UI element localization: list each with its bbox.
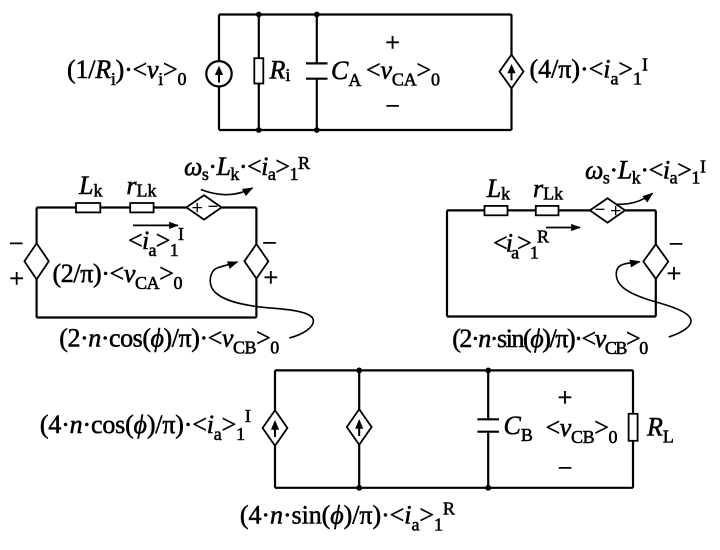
dependent source (2ncos/pi)&lt;vCB&gt;0 diamond (ml right): [244, 244, 268, 279]
node top diamond2: [356, 368, 362, 374]
resistor Ri: [254, 58, 263, 83]
capacitor CA plates: [306, 63, 328, 78]
node bottom CB: [485, 485, 491, 491]
leader S-curve to (mr right diamond): [616, 262, 691, 337]
capacitor CB plates: [477, 419, 499, 431]
wire right upper (ml): [255, 208, 257, 245]
dependent current source (4nsin/pi)&lt;ia&gt;1R diamond: [347, 409, 372, 445]
dependent source ws·Lk·&lt;ia&gt;1R diamond (ml): [186, 195, 221, 219]
wire top (top circuit): [219, 13, 512, 15]
wire left upper (bottom circuit): [274, 370, 276, 487]
dependent source ws·Lk·&lt;ia&gt;1I diamond (mr): [590, 198, 625, 222]
wire right lower (ml): [255, 279, 257, 318]
wire between rLk and diamond (mr): [559, 209, 590, 211]
wire left (mr): [446, 210, 448, 316]
svg-text:−: −: [669, 230, 684, 259]
svg-text:−: −: [558, 453, 573, 482]
wire CB branch (bottom circuit): [487, 370, 489, 487]
svg-text:+: +: [558, 383, 573, 412]
wire bottom (top circuit): [219, 129, 512, 131]
svg-text:(4·n·sin(ϕ)/π)·<ia>1R: (4·n·sin(ϕ)/π)·<ia>1R: [240, 499, 455, 535]
wire between Lk and rLk (mr): [508, 209, 536, 211]
svg-text:ωs·Lk·<ia>1I: ωs·Lk·<ia>1I: [585, 156, 706, 188]
curved arrow (mr top): [617, 193, 653, 204]
node top Ri: [256, 12, 262, 18]
wire diamond to corner (mr): [625, 209, 656, 211]
wire left upper (ml): [35, 208, 37, 244]
wire diamond to corner (ml): [222, 206, 257, 208]
node bottom diamond2: [356, 485, 362, 491]
wire CA branch: [316, 15, 318, 131]
svg-text:(4/π)·<ia>1I: (4/π)·<ia>1I: [530, 54, 649, 88]
wire top-left segment (ml circuit): [37, 206, 76, 208]
inductor Lk (mr): [485, 206, 508, 215]
svg-text:+: +: [9, 264, 24, 293]
svg-text:+: +: [263, 263, 278, 292]
node bottom Ri: [256, 127, 262, 133]
wire bottom (bottom circuit): [275, 487, 633, 489]
svg-text:−: −: [262, 229, 277, 258]
wire right (top circuit): [510, 15, 512, 131]
resistor rLk (ml): [130, 203, 153, 212]
svg-text:−: −: [9, 229, 24, 258]
inductor Lk (ml): [76, 203, 100, 212]
dependent source (2/pi)&lt;vCA&gt;0 diamond (ml left): [24, 243, 48, 279]
wire left lower (ml): [35, 279, 37, 317]
wire bottom (ml): [37, 316, 257, 318]
wire left (top circuit): [218, 15, 220, 131]
wire top-left segment (mr circuit): [447, 209, 485, 211]
current direction arrow (ml): [133, 224, 178, 226]
node top CB: [485, 368, 491, 374]
svg-text:(2/π)·<vCA>0: (2/π)·<vCA>0: [53, 259, 183, 293]
node top CA: [314, 12, 320, 18]
node bottom CA: [314, 127, 320, 133]
current source I1 (1/Ri)&lt;vi&gt;0 circle: [206, 61, 231, 86]
wire RL branch (bottom circuit): [632, 370, 634, 487]
svg-text:+: +: [385, 28, 400, 57]
resistor rLk (mr): [536, 206, 559, 215]
svg-text:+: +: [667, 259, 682, 288]
wire between rLk and diamond (ml): [154, 206, 187, 208]
svg-text:(1/Ri)·<vi>0: (1/Ri)·<vi>0: [67, 55, 187, 89]
wire diamond2 branch (bottom circuit): [358, 370, 360, 487]
wire bottom (mr): [447, 315, 656, 317]
wire right lower (mr): [655, 279, 657, 317]
curved arrow (ml top): [201, 188, 253, 195]
wire between Lk and rLk (ml): [100, 206, 130, 208]
dependent source (2nsin/pi)&lt;vCB&gt;0 diamond (mr right): [643, 244, 668, 279]
wire top (bottom circuit): [275, 369, 633, 371]
resistor RL: [629, 414, 638, 441]
dependent current source (4ncos/pi)&lt;ia&gt;1I diamond: [263, 410, 288, 446]
wire right upper (mr): [655, 210, 657, 244]
current direction arrow (mr): [546, 227, 580, 229]
wire Ri branch: [258, 15, 260, 131]
svg-text:−: −: [385, 91, 400, 120]
dependent current source (4/pi)&lt;ia&gt;1 I diamond: [500, 55, 524, 89]
leader S-curve to (ml right diamond): [210, 262, 313, 338]
